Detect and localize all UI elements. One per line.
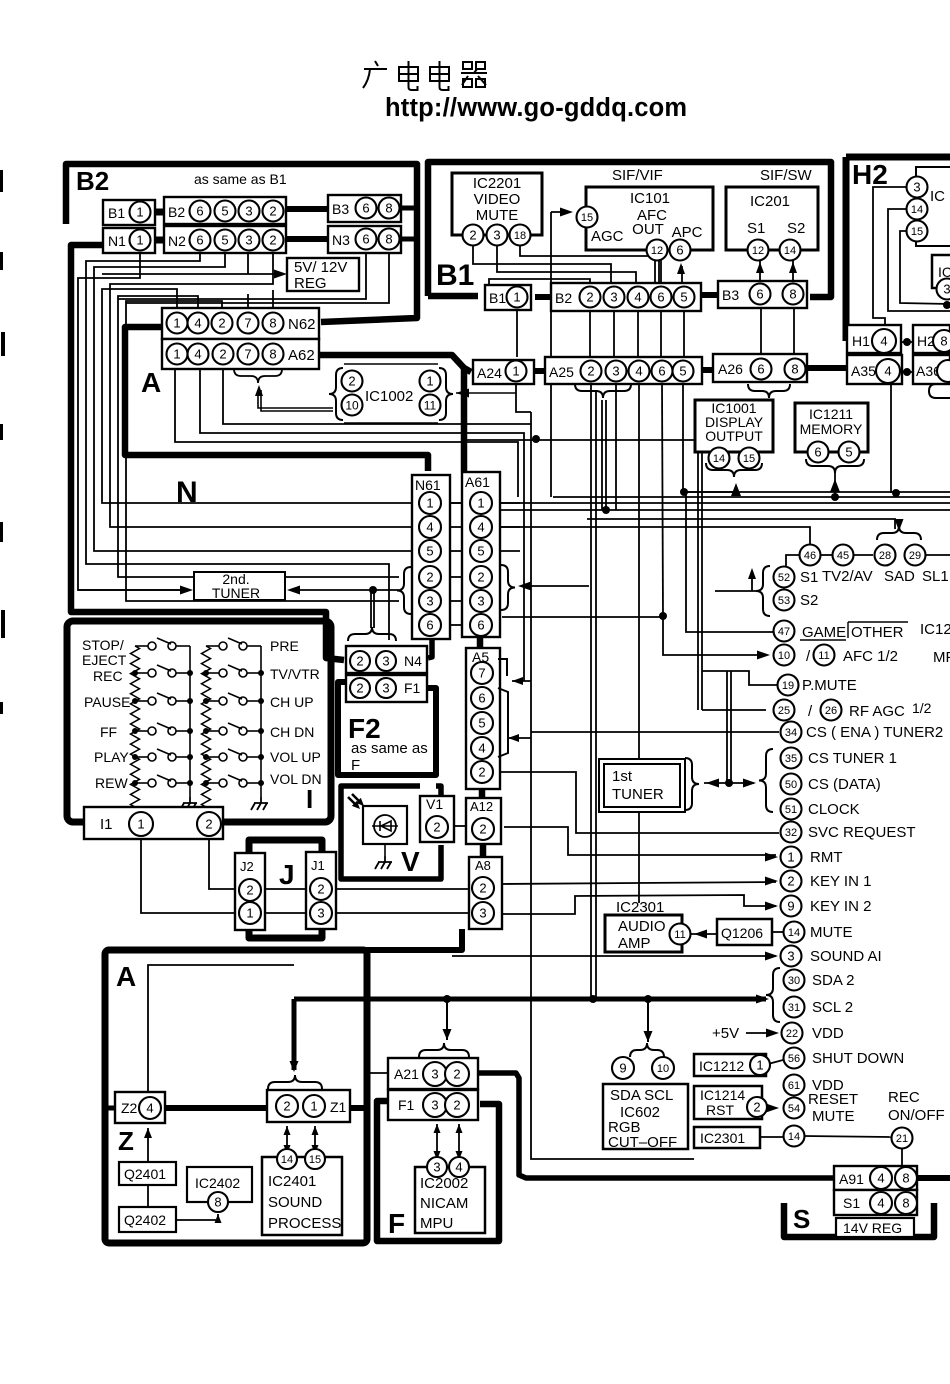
ic IC1214 RST: [694, 1086, 762, 1119]
thick link A25-A26: [702, 367, 713, 373]
wire IC101 pin15 feed: [551, 211, 568, 213]
svg-text:14: 14: [713, 453, 725, 465]
wire I1 pin2 to J2 pin2: [209, 837, 235, 889]
svg-text:OUT: OUT: [632, 221, 664, 238]
wire IC1212 to 56: [768, 1060, 783, 1064]
svg-text:2: 2: [269, 233, 276, 248]
svg-text:F: F: [351, 757, 360, 774]
wire IC2201 pin2 down: [473, 246, 611, 286]
svg-text:5: 5: [478, 716, 485, 731]
svg-text:11: 11: [818, 650, 829, 662]
svg-text:14V REG: 14V REG: [843, 1220, 902, 1236]
connector A26: [713, 354, 807, 382]
svg-text:6: 6: [477, 618, 484, 633]
wire KEYIN1 feed from A8 pin2: [502, 882, 776, 884]
ic IC602 RGB CUTOFF: [603, 1084, 688, 1149]
wire IC101 pin12 to B2 pin6: [654, 260, 656, 286]
svg-text:N61: N61: [415, 477, 441, 493]
svg-text:F1: F1: [404, 680, 421, 696]
wire SVC feed from A5 pin2: [501, 772, 779, 833]
brace left of N61 pins: [397, 567, 411, 614]
svg-text:MP: MP: [933, 649, 950, 666]
svg-text:5: 5: [845, 445, 852, 460]
arrow into A61 brace: [518, 582, 531, 591]
arrow bus into 30/31: [756, 995, 769, 1004]
svg-text:1: 1: [137, 817, 144, 832]
svg-text:11: 11: [674, 929, 685, 941]
pin 32 SVC REQUEST: [781, 822, 802, 843]
region border H2: [846, 154, 950, 161]
svg-text:GAME: GAME: [802, 624, 846, 641]
wire long vertical x531: [531, 412, 694, 1159]
wire A61 pin6 row to AFC node: [502, 616, 663, 618]
svg-text:A: A: [116, 961, 136, 992]
connector A5: [466, 648, 500, 789]
svg-text:EJECT: EJECT: [82, 652, 127, 668]
wire SOUND AI feed: [452, 955, 776, 957]
svg-text:54: 54: [788, 1103, 800, 1115]
thick tail A5 to A12: [479, 789, 486, 798]
svg-text:TUNER: TUNER: [212, 585, 260, 601]
svg-text:as same as B1: as same as B1: [194, 171, 287, 187]
region border A lower: [105, 950, 367, 1243]
svg-text:1: 1: [426, 496, 433, 511]
svg-text:Z: Z: [118, 1126, 134, 1156]
arrow into 10: [757, 651, 770, 660]
svg-text:34: 34: [785, 727, 797, 739]
svg-text:35: 35: [785, 753, 797, 765]
wire A5 bracket arrows feed: [512, 680, 531, 682]
svg-text:2: 2: [356, 654, 363, 669]
wire nest left vertical bundle: [78, 253, 186, 590]
connector N61: [412, 475, 450, 639]
svg-text:A12: A12: [470, 799, 493, 814]
svg-text:RF AGC: RF AGC: [849, 703, 905, 720]
connector N2: [164, 226, 286, 253]
svg-text:6: 6: [814, 445, 821, 460]
svg-text:14: 14: [911, 204, 923, 216]
svg-text:as same as: as same as: [351, 740, 428, 757]
svg-text:B2: B2: [555, 290, 572, 306]
arrow up IC1001 brace: [731, 483, 741, 496]
arrow up into IC201 12: [756, 262, 764, 273]
arrow into 2nd TUNER right: [287, 586, 300, 595]
svg-text:I1: I1: [100, 816, 113, 833]
svg-text:CH UP: CH UP: [270, 694, 314, 710]
svg-text:4: 4: [877, 1196, 884, 1211]
svg-text:51: 51: [785, 804, 797, 816]
svg-text:5: 5: [477, 544, 484, 559]
svg-text:2: 2: [205, 817, 212, 832]
svg-text:1: 1: [136, 233, 143, 248]
svg-text:25: 25: [778, 705, 790, 717]
thick link B2-B3 mid: [701, 292, 718, 298]
box 1st TUNER: [599, 759, 685, 812]
svg-text:6: 6: [658, 364, 665, 379]
pin 61 VDD: [784, 1075, 805, 1096]
svg-text:NICAM: NICAM: [420, 1195, 468, 1212]
connector S1: [834, 1190, 917, 1215]
wire 21 down to A91: [901, 1149, 903, 1166]
regulator 14V REG: [836, 1218, 914, 1237]
svg-text:V1: V1: [426, 796, 443, 812]
connector N1: [103, 228, 155, 253]
wire H2 region pin14 down-left: [888, 209, 950, 311]
svg-text:47: 47: [778, 626, 790, 638]
thick bus A21 to A91: [478, 1073, 834, 1178]
wire A62 pin1 right-run: [175, 368, 518, 497]
svg-text:Q1206: Q1206: [721, 925, 763, 941]
thick stub N3-border: [402, 237, 417, 242]
svg-text:AMP: AMP: [618, 935, 651, 952]
svg-text:B2: B2: [76, 166, 109, 196]
svg-text:3: 3: [431, 1098, 438, 1113]
svg-text:2: 2: [587, 364, 594, 379]
svg-text:1: 1: [136, 205, 143, 220]
wire 46 to 52: [786, 555, 799, 567]
svg-text:52: 52: [778, 572, 790, 584]
svg-text:N1: N1: [108, 233, 126, 249]
svg-text:CLOCK: CLOCK: [808, 801, 860, 818]
pin 34 CS ( ENA ) TUNER2: [781, 722, 802, 743]
svg-text:8: 8: [902, 1196, 909, 1211]
wire IC1211 brace feed: [834, 471, 836, 497]
svg-text:7: 7: [244, 347, 251, 362]
svg-text:4: 4: [455, 1160, 462, 1175]
svg-text:46: 46: [804, 550, 816, 562]
thick bus A border to Z2: [105, 1106, 115, 1111]
wire AFC row feed: [663, 616, 766, 655]
arrow into 2nd TUNER left: [180, 586, 193, 595]
pin 19 P.MUTE: [778, 675, 799, 696]
svg-text:B2: B2: [168, 204, 185, 220]
svg-text:MPU: MPU: [420, 1215, 453, 1232]
wire Q2401-Q2402: [147, 1185, 149, 1207]
thick tail A61 to A5: [477, 637, 484, 648]
svg-text:8: 8: [940, 334, 947, 349]
ic IC2201 VIDEO MUTE: [452, 173, 542, 235]
svg-text:VDD: VDD: [812, 1025, 844, 1042]
svg-text:8: 8: [269, 347, 276, 362]
svg-text:IC1214: IC1214: [700, 1087, 745, 1103]
svg-text:1: 1: [512, 364, 519, 379]
thick link B2-B3: [286, 206, 328, 212]
svg-text:6: 6: [676, 243, 683, 258]
wire RFAGC feed: [702, 709, 766, 711]
pin 51 CLOCK: [781, 799, 802, 820]
svg-text:4: 4: [426, 520, 433, 535]
svg-text:1: 1: [426, 374, 433, 389]
svg-text:2: 2: [586, 290, 593, 305]
svg-text:AUDIO: AUDIO: [618, 918, 666, 935]
svg-text:1/2: 1/2: [912, 700, 932, 716]
svg-text:CS ( ENA ) TUNER2: CS ( ENA ) TUNER2: [806, 724, 943, 741]
wire A61 top row to x536: [464, 439, 698, 441]
svg-text:CUT–OFF: CUT–OFF: [608, 1134, 677, 1151]
svg-text:2: 2: [453, 1067, 460, 1082]
svg-text:PAUSE: PAUSE: [84, 694, 130, 710]
ic IC2002 NICAM MPU: [415, 1167, 485, 1233]
wire IC2301 to 14: [760, 1136, 783, 1138]
bracket right of A5 pins 6-4: [498, 688, 508, 757]
svg-text:A21: A21: [394, 1066, 419, 1082]
svg-text:3: 3: [477, 594, 484, 609]
brace 30/31: [766, 968, 780, 1022]
svg-text:3: 3: [245, 204, 252, 219]
wire CS brace arrows: [704, 782, 727, 784]
pin 3 SOUND AI: [781, 946, 802, 967]
svg-text:SIF/VIF: SIF/VIF: [612, 167, 663, 184]
svg-text:5: 5: [680, 290, 687, 305]
arrow down to Z1 brace: [290, 1061, 299, 1072]
pin 30 SDA 2: [784, 970, 805, 991]
svg-text:A91: A91: [839, 1171, 864, 1187]
svg-text:SDA SCL: SDA SCL: [610, 1087, 673, 1104]
double arrows F1 to IC2002: [436, 1124, 438, 1158]
svg-text:8: 8: [789, 287, 796, 302]
svg-text:STOP/: STOP/: [82, 637, 124, 653]
svg-text:KEY IN 2: KEY IN 2: [810, 898, 871, 915]
ir arrows into detector: [348, 794, 362, 807]
svg-text:8: 8: [385, 232, 392, 247]
svg-text:IC101: IC101: [630, 190, 670, 207]
svg-text:3: 3: [913, 180, 920, 195]
wire IC2201 pin3 down: [497, 246, 636, 286]
svg-text:V: V: [401, 846, 420, 877]
wire into 2nd TUNER left: [78, 589, 186, 591]
svg-text:N2: N2: [168, 233, 186, 249]
wire CSENA feed: [531, 731, 779, 733]
svg-text:12: 12: [752, 245, 764, 257]
svg-text:IC2301: IC2301: [700, 1130, 745, 1146]
wire bus y492: [684, 491, 950, 493]
svg-text:B1: B1: [436, 259, 474, 292]
connector A25: [545, 357, 702, 384]
svg-text:2: 2: [219, 347, 226, 362]
connector A35: [847, 355, 902, 384]
svg-text:ON/OFF: ON/OFF: [888, 1107, 945, 1124]
connector A8: [469, 857, 502, 929]
region border N: [71, 245, 344, 660]
connector H2 pins: [913, 325, 950, 353]
svg-text:1: 1: [173, 347, 180, 362]
svg-text:VOL DN: VOL DN: [270, 771, 322, 787]
wire H2 region pin15 down-left: [900, 231, 950, 304]
wire Q1206 to mute pin: [772, 931, 783, 933]
ic IC201: [726, 187, 818, 250]
svg-text:N62: N62: [288, 316, 316, 333]
svg-text:2: 2: [479, 881, 486, 896]
connector J2: [235, 853, 265, 930]
svg-text:TV2/AV: TV2/AV: [822, 568, 873, 585]
svg-text:VOL UP: VOL UP: [270, 749, 321, 765]
svg-text:3: 3: [433, 1160, 440, 1175]
wire IC2201 pin18 down: [520, 246, 661, 286]
bracket J bottom: [249, 929, 322, 938]
svg-text:PROCESS: PROCESS: [268, 1215, 341, 1232]
svg-text:A24: A24: [477, 365, 502, 381]
svg-text:14: 14: [784, 245, 796, 257]
connector B1 (B2 region): [103, 200, 155, 225]
junction dots H rows: [903, 338, 911, 346]
svg-text:8: 8: [791, 362, 798, 377]
region border F2: [338, 682, 436, 775]
connector B3 (B2 region): [328, 195, 401, 222]
wire 46-45-28-29 links: [820, 554, 832, 556]
pin 54: [784, 1098, 805, 1119]
wire 14 to 21 RECONOFF: [804, 1136, 891, 1137]
svg-text:2: 2: [348, 374, 355, 389]
svg-text:IC2002: IC2002: [420, 1175, 468, 1192]
ground left collector: [180, 797, 197, 810]
svg-text:APC: APC: [672, 224, 703, 241]
wire F region stub: [368, 1072, 390, 1074]
svg-text:2: 2: [478, 765, 485, 780]
svg-text:9: 9: [787, 899, 794, 914]
svg-text:A: A: [141, 367, 161, 398]
region border I: [67, 621, 331, 822]
wire brace28 feed: [587, 519, 895, 529]
svg-text:7: 7: [244, 316, 251, 331]
svg-text:http://www.go-gddq.com: http://www.go-gddq.com: [385, 94, 687, 122]
svg-text:SHUT DOWN: SHUT DOWN: [812, 1050, 904, 1067]
svg-text:56: 56: [788, 1053, 800, 1065]
svg-text:4: 4: [877, 1171, 884, 1186]
box 2nd TUNER: [194, 572, 285, 600]
svg-text:A8: A8: [475, 858, 491, 873]
connector B1 mid: [485, 285, 531, 310]
svg-text:IC1002: IC1002: [365, 388, 413, 405]
svg-text:OUTPUT: OUTPUT: [705, 428, 763, 444]
svg-text:6: 6: [196, 233, 203, 248]
svg-text:N3: N3: [332, 232, 350, 248]
svg-text:AGC: AGC: [591, 228, 624, 245]
svg-text:8: 8: [214, 1195, 221, 1210]
svg-text:1: 1: [787, 850, 794, 865]
svg-text:1: 1: [310, 1099, 317, 1114]
svg-text:26: 26: [825, 705, 837, 717]
arrow up near 52: [748, 568, 756, 579]
connector B2 mid: [551, 283, 701, 311]
svg-text:6: 6: [426, 618, 433, 633]
svg-text:PLAY: PLAY: [94, 749, 129, 765]
svg-text:SDA 2: SDA 2: [812, 972, 855, 989]
svg-text:PRE: PRE: [270, 638, 299, 654]
thick bus SDA/SCL: [294, 997, 766, 1002]
svg-text:2: 2: [453, 1098, 460, 1113]
brace right of A61 pins: [501, 565, 515, 610]
ic IC1212: [694, 1054, 766, 1076]
svg-text:A26: A26: [718, 361, 743, 377]
svg-text:11: 11: [424, 398, 437, 412]
svg-text:S2: S2: [787, 220, 805, 237]
svg-text:4: 4: [194, 347, 201, 362]
svg-text:MUTE: MUTE: [476, 207, 519, 224]
ic IC1001 DISPLAY OUTPUT: [695, 400, 773, 452]
pins 46 45 28 29: [800, 545, 821, 566]
svg-text:10: 10: [657, 1063, 669, 1075]
ic IC101: [586, 187, 713, 250]
svg-text:4: 4: [478, 741, 485, 756]
wire IC1214 to 54: [763, 1106, 770, 1107]
ic IC2401 SOUND PROCESS: [262, 1157, 342, 1235]
wire B2 pin5 to APC pin6: [681, 266, 683, 286]
connector F1 (F2 region): [346, 675, 427, 702]
svg-text:IC2201: IC2201: [473, 175, 521, 192]
svg-text:KEY IN 1: KEY IN 1: [810, 873, 871, 890]
pin 35 CS TUNER 1: [781, 748, 802, 769]
svg-text:2: 2: [317, 882, 324, 897]
wire J2-J1 links: [265, 888, 306, 890]
svg-text:3: 3: [479, 906, 486, 921]
svg-text:IC2301: IC2301: [616, 899, 664, 916]
svg-text:J: J: [279, 859, 295, 890]
svg-text:S1: S1: [800, 569, 818, 586]
svg-text:IC12: IC12: [920, 621, 950, 638]
wire stubs N62 pins 7,8 up: [247, 294, 249, 308]
thick A border run to A8: [366, 929, 462, 950]
ic IC2402: [187, 1167, 252, 1202]
svg-text:A62: A62: [288, 347, 315, 364]
svg-text:14: 14: [788, 1131, 800, 1143]
svg-text:1: 1: [513, 290, 520, 305]
bracket right of A5 pin7: [498, 659, 507, 676]
svg-text:S1: S1: [843, 1195, 860, 1211]
svg-text:15: 15: [911, 226, 923, 238]
svg-text:+5V: +5V: [712, 1025, 739, 1042]
region border B1: [428, 162, 831, 297]
svg-text:3: 3: [426, 594, 433, 609]
svg-text:SAD: SAD: [884, 568, 915, 585]
brace CS group: [759, 749, 773, 812]
arrow into IC101 pin15: [560, 208, 573, 217]
svg-text:IC1211: IC1211: [809, 406, 853, 422]
brace under A26 pins: [748, 384, 790, 398]
photo detector: [363, 806, 407, 844]
svg-text:3: 3: [382, 654, 389, 669]
transistor Q2402: [119, 1207, 176, 1232]
svg-text:MUTE: MUTE: [812, 1108, 855, 1125]
ic IC1002: [329, 368, 343, 420]
switch matrix chain 2: [202, 646, 211, 807]
svg-text:REG: REG: [294, 275, 327, 292]
wire I1 pin1 to J2: [141, 837, 235, 913]
connector H1: [847, 325, 901, 353]
pin 10: [774, 645, 795, 666]
pin 53 S2: [774, 590, 795, 611]
svg-text:2: 2: [433, 820, 440, 835]
wire B3 pin8 arrow up to IC201 S2: [792, 259, 794, 283]
svg-text:45: 45: [837, 550, 849, 562]
svg-text:2: 2: [246, 883, 253, 898]
svg-text:19: 19: [782, 680, 794, 692]
pin 2 KEY IN 1: [781, 871, 802, 892]
svg-text:2: 2: [426, 570, 433, 585]
wire A25 pin5 drop: [682, 383, 684, 492]
brace under A25 pins: [575, 384, 631, 398]
svg-text:6: 6: [478, 691, 485, 706]
pin 31 SCL 2: [784, 997, 805, 1018]
wire N3 pin6 to left nest: [118, 249, 366, 299]
svg-text:B3: B3: [722, 287, 739, 303]
svg-text:RESET: RESET: [808, 1091, 858, 1108]
svg-text:8: 8: [902, 1171, 909, 1186]
wire H1-H2 link dots row: [901, 341, 913, 343]
svg-text:S2: S2: [800, 592, 818, 609]
svg-text:10: 10: [345, 398, 359, 412]
wire RMT feed from A12: [504, 827, 776, 855]
connector F1 lower: [388, 1090, 478, 1120]
